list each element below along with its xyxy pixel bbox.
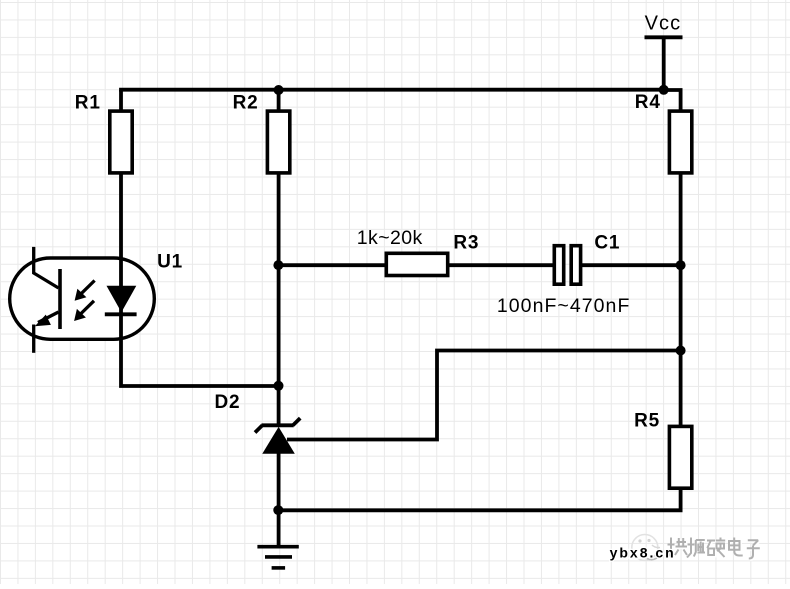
svg-text:100nF~470nF: 100nF~470nF bbox=[497, 295, 631, 317]
svg-text:R4: R4 bbox=[635, 92, 661, 113]
svg-text:ybx8.cn: ybx8.cn bbox=[610, 544, 676, 560]
svg-text:D2: D2 bbox=[215, 392, 241, 413]
svg-text:U1: U1 bbox=[157, 251, 183, 272]
svg-text:C1: C1 bbox=[594, 233, 620, 254]
svg-text:Vcc: Vcc bbox=[645, 12, 682, 34]
svg-text:R3: R3 bbox=[453, 233, 479, 254]
svg-text:R5: R5 bbox=[634, 410, 660, 431]
svg-text:R1: R1 bbox=[75, 92, 101, 113]
svg-text:R2: R2 bbox=[233, 92, 259, 113]
svg-text:1k~20k: 1k~20k bbox=[357, 227, 423, 249]
